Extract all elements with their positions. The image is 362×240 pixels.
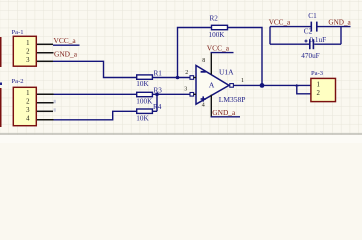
svg-text:100K: 100K <box>136 97 153 105</box>
svg-text:VCC_a: VCC_a <box>207 43 230 52</box>
resistor R4 <box>136 103 161 123</box>
pin 1 output terminal <box>230 84 234 88</box>
no-connect mark Pa-2 pin3 <box>54 108 56 111</box>
pin 3 <box>37 60 53 62</box>
wire Pa-3 pin2 branch <box>295 84 311 94</box>
svg-text:LM358P: LM358P <box>219 95 246 104</box>
wire R1 to opamp pin2 <box>152 77 190 79</box>
pin 3 terminal <box>190 93 194 97</box>
cropped connector edge left top <box>0 37 2 67</box>
svg-text:1: 1 <box>241 78 244 84</box>
pin 1 <box>37 93 54 95</box>
connector Pa-2 <box>12 78 54 126</box>
cropped connector edge left bottom <box>0 83 2 128</box>
svg-text:2: 2 <box>26 98 30 105</box>
svg-text:C1: C1 <box>308 12 317 20</box>
capacitor C1 <box>308 12 326 44</box>
wire R4 riser <box>156 94 158 111</box>
connector Pa-3 <box>311 70 336 101</box>
wire R3 to opamp pin3 <box>152 93 190 95</box>
power port VCC_a at C1 <box>269 19 291 27</box>
power port VCC_a at op-amp <box>207 43 234 52</box>
svg-text:R1: R1 <box>154 69 163 77</box>
connector Pa-1 <box>12 29 54 66</box>
svg-text:470uF: 470uF <box>301 52 319 60</box>
svg-text:Pa-2: Pa-2 <box>12 78 24 85</box>
resistor R3 <box>136 86 162 105</box>
svg-text:2: 2 <box>185 70 188 76</box>
wire decoupling loop left <box>269 27 271 45</box>
svg-text:U1A: U1A <box>219 67 234 76</box>
resistor R2 <box>209 15 228 40</box>
svg-text:100K: 100K <box>209 31 226 39</box>
junction at R2 riser <box>176 76 180 80</box>
power port VCC_a at Pa-1 <box>53 36 80 45</box>
svg-text:Pa-3: Pa-3 <box>311 70 324 77</box>
pin 2 terminal <box>190 76 194 80</box>
wire Pa-2 pin4 to R4 <box>54 111 137 120</box>
svg-text:8: 8 <box>202 58 205 64</box>
svg-text:1: 1 <box>26 40 29 47</box>
svg-text:0.1uF: 0.1uF <box>310 36 327 44</box>
svg-text:GND_a: GND_a <box>54 49 78 58</box>
wire decoupling loop right <box>340 27 342 45</box>
svg-text:10K: 10K <box>136 80 149 88</box>
svg-text:4: 4 <box>26 115 30 122</box>
capacitor C2 <box>301 28 319 61</box>
pin 3 <box>37 110 53 112</box>
svg-text:1: 1 <box>26 90 29 97</box>
svg-text:GND_a: GND_a <box>212 108 236 117</box>
svg-text:A: A <box>209 80 215 89</box>
pin 2 <box>37 52 54 54</box>
junction output riser <box>260 83 265 88</box>
wire decoupling loop bottom left <box>270 43 309 45</box>
resistor R1 <box>136 69 162 88</box>
pin 1 <box>37 43 53 45</box>
junction at R4 riser <box>155 93 159 97</box>
svg-text:3: 3 <box>184 87 187 93</box>
svg-text:3: 3 <box>26 107 30 114</box>
svg-text:10K: 10K <box>136 114 149 122</box>
svg-text:C2: C2 <box>304 28 313 36</box>
svg-text:R2: R2 <box>210 15 219 23</box>
svg-text:VCC_a: VCC_a <box>54 36 77 45</box>
wire R2 to output riser <box>228 28 263 86</box>
svg-text:3: 3 <box>26 57 30 64</box>
pin 4 <box>210 95 212 117</box>
wire Pa-2 pin1 to R3 <box>54 93 137 95</box>
svg-text:2: 2 <box>317 90 321 97</box>
power port GND_a at Pa-1 <box>54 49 78 58</box>
wire decoupling loop top right <box>317 26 351 28</box>
op-amp U1A <box>184 53 245 117</box>
wire op-amp output to Pa-3 <box>233 84 310 86</box>
svg-text:Pa-1: Pa-1 <box>12 29 24 36</box>
sheet border bottom edge <box>0 134 362 143</box>
pin 8 <box>210 53 212 75</box>
svg-text:2: 2 <box>26 48 30 55</box>
svg-text:R4: R4 <box>153 103 162 111</box>
wire decoupling loop bottom right <box>314 43 341 45</box>
pin 2 <box>37 102 54 104</box>
no-connect mark Pa-2 pin2 <box>54 100 56 103</box>
svg-text:VCC_a: VCC_a <box>269 19 291 27</box>
wire R2 feedback riser <box>178 28 212 78</box>
power port GND_a at C1 <box>328 19 351 27</box>
svg-text:1: 1 <box>317 81 320 88</box>
wire Pa-1 pin3 to R1 <box>53 61 137 77</box>
svg-text:GND_a: GND_a <box>328 19 351 27</box>
wire decoupling loop top left <box>270 26 311 28</box>
pin 4 <box>37 119 54 121</box>
power port GND_a at op-amp <box>211 108 240 117</box>
svg-text:4: 4 <box>202 102 205 108</box>
